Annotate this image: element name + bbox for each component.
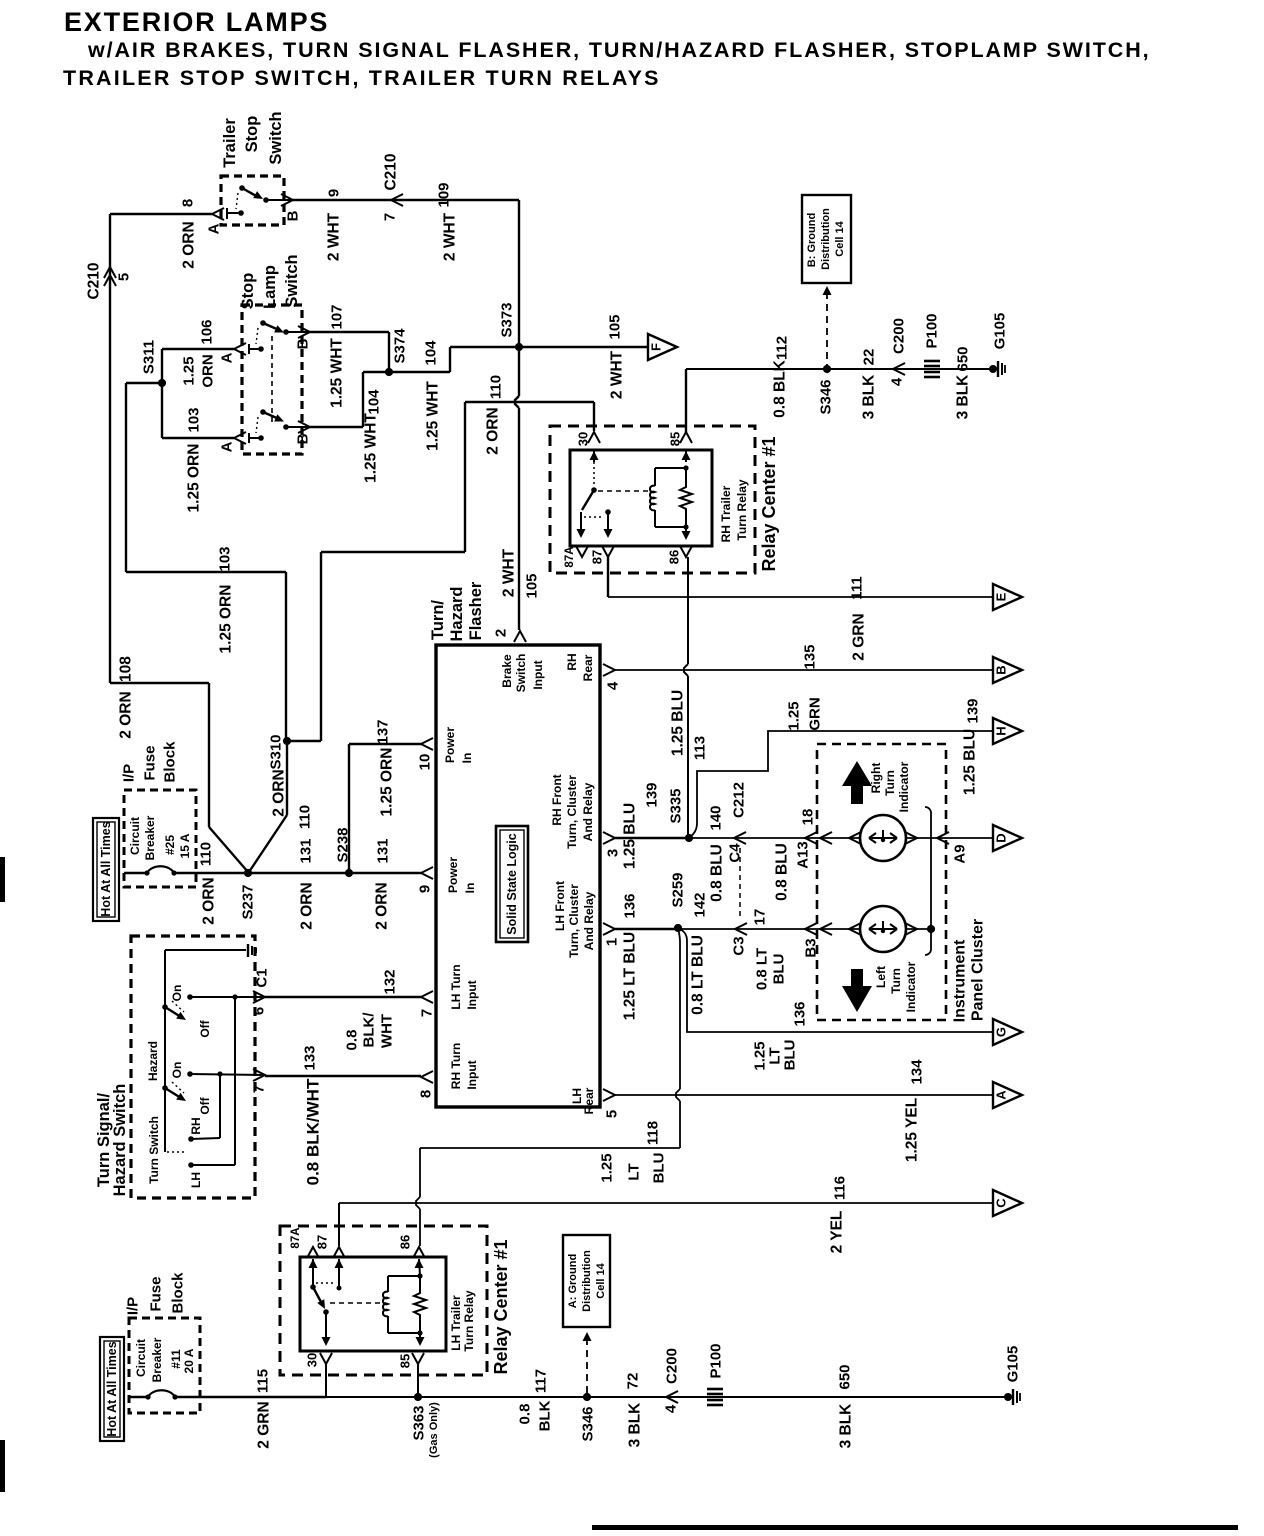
wire: S311 to stop lamp switch pin A bottom — [161, 383, 163, 438]
svg-text:111: 111 — [849, 576, 866, 599]
svg-text:TRAILER STOP SWITCH, TRAILER T: TRAILER STOP SWITCH, TRAILER TURN RELAYS — [63, 66, 661, 90]
svg-text:72: 72 — [625, 1373, 642, 1390]
dashed ground reference A — [586, 1338, 588, 1393]
svg-text:A13: A13 — [795, 841, 812, 869]
svg-text:RH: RH — [189, 1117, 203, 1134]
svg-text:LH Trailer: LH Trailer — [449, 1295, 463, 1351]
svg-text:107: 107 — [329, 304, 346, 329]
svg-text:139: 139 — [965, 698, 982, 723]
switch internal ground — [165, 949, 246, 951]
svg-text:RH Turn: RH Turn — [449, 1043, 463, 1089]
flasher pin 5 — [603, 1089, 615, 1101]
svg-text:2 ORN: 2 ORN — [299, 882, 316, 929]
svg-text:S374: S374 — [392, 328, 409, 364]
svg-text:B3: B3 — [803, 938, 820, 957]
svg-text:RH: RH — [565, 653, 579, 670]
svg-text:(Gas Only): (Gas Only) — [428, 1402, 440, 1458]
wire: breaker to relay 30 2 GRN 115 — [175, 1396, 326, 1398]
wire: S238 to flasher pin 9 2 ORN 131 — [349, 872, 421, 874]
svg-text:Hot At All Times: Hot At All Times — [105, 1341, 119, 1436]
svg-text:RH Front: RH Front — [550, 774, 564, 825]
splice S259 — [674, 924, 682, 932]
svg-text:A: A — [994, 1090, 1009, 1100]
svg-text:103: 103 — [186, 407, 203, 432]
svg-text:118: 118 — [645, 1121, 662, 1145]
flasher pin 4 — [603, 664, 615, 676]
svg-text:2 YEL: 2 YEL — [829, 1211, 846, 1254]
hot at all times box upper — [93, 818, 119, 921]
svg-text:650: 650 — [955, 346, 972, 371]
svg-text:LH: LH — [189, 1172, 203, 1188]
svg-text:15 A: 15 A — [178, 833, 192, 858]
svg-text:Breaker: Breaker — [150, 1337, 164, 1382]
svg-text:0.8 LT: 0.8 LT — [754, 948, 771, 990]
svg-text:Hazard: Hazard — [448, 586, 466, 641]
svg-text:4: 4 — [605, 681, 622, 690]
svg-text:1.25: 1.25 — [599, 1153, 616, 1182]
svg-text:Circuit: Circuit — [128, 817, 142, 855]
splice S311 — [158, 379, 166, 387]
svg-text:Turn: Turn — [889, 968, 903, 994]
flasher pin 7 — [421, 991, 433, 1003]
svg-text:8: 8 — [180, 199, 197, 207]
svg-text:Turn: Turn — [883, 770, 897, 796]
svg-text:5: 5 — [116, 273, 133, 281]
svg-text:I/P: I/P — [121, 764, 138, 782]
connector G — [993, 1019, 1022, 1045]
stop lamp switch blade pole — [260, 320, 266, 326]
svg-text:B: B — [994, 665, 1009, 674]
relay LH resistor — [414, 1276, 426, 1333]
hot at all times box lower — [100, 1337, 124, 1441]
wire: left vertical 2 ORN 108 drop — [109, 214, 111, 683]
svg-text:Input: Input — [465, 980, 479, 1009]
svg-text:136: 136 — [622, 893, 639, 918]
wire: 0.8 BLK/WHT 132 to flasher pin 7 — [265, 996, 421, 998]
ground G105 lower — [1004, 1393, 1012, 1401]
svg-text:1.25 BLU: 1.25 BLU — [670, 690, 687, 756]
RH trailer turn relay box — [550, 426, 755, 573]
svg-text:Rear: Rear — [581, 654, 595, 681]
bottom border line — [592, 1525, 1238, 1530]
svg-text:20 A: 20 A — [182, 1348, 196, 1373]
svg-text:Rear: Rear — [582, 1087, 596, 1114]
svg-text:1.25 ORN: 1.25 ORN — [218, 585, 235, 654]
svg-text:Trailer: Trailer — [221, 118, 239, 168]
connector A — [993, 1082, 1022, 1108]
wire: flasher pin 5 to connector A 1.25 YEL 134 — [615, 1094, 993, 1096]
wire: relay 86 down to S335 1.25 BLU 113 — [687, 557, 689, 664]
svg-text:2 ORN: 2 ORN — [374, 882, 391, 929]
stop lamp switch pin B pole — [286, 426, 310, 428]
LH trailer turn relay box — [280, 1226, 487, 1375]
svg-text:106: 106 — [199, 319, 216, 344]
svg-text:Relay Center #1: Relay Center #1 — [759, 436, 779, 571]
relay LH pin 85 — [412, 1353, 424, 1364]
switch pin 7 C1 — [253, 1069, 265, 1081]
svg-text:S310: S310 — [268, 734, 285, 769]
svg-text:S237: S237 — [240, 884, 257, 919]
splice S346 lower — [583, 1393, 591, 1401]
svg-text:650: 650 — [837, 1364, 854, 1389]
svg-text:1.25 BLU: 1.25 BLU — [962, 729, 979, 795]
svg-text:8: 8 — [418, 1090, 435, 1098]
svg-text:116: 116 — [832, 1176, 849, 1200]
svg-text:#25: #25 — [163, 835, 177, 855]
connector C200 cavity 4 lower — [666, 1391, 678, 1403]
svg-text:C212: C212 — [731, 782, 748, 818]
relay RH pin 86 — [680, 546, 692, 557]
svg-text:117: 117 — [533, 1369, 550, 1393]
switch vertical to RH contact — [219, 1074, 221, 1138]
svg-text:18: 18 — [800, 809, 817, 826]
svg-text:B: B — [285, 210, 302, 221]
svg-text:Turn/: Turn/ — [429, 600, 447, 640]
svg-text:2 WHT: 2 WHT — [501, 548, 518, 597]
page edge marks — [0, 857, 5, 902]
svg-text:131: 131 — [298, 838, 315, 863]
trailer stop switch pin A — [212, 208, 224, 220]
turn signal hazard switch box — [131, 936, 255, 1198]
splice S373 — [515, 343, 523, 351]
svg-text:Lamp: Lamp — [261, 265, 279, 309]
svg-text:0.8 BLK/WHT: 0.8 BLK/WHT — [304, 1078, 323, 1185]
svg-text:133: 133 — [302, 1045, 319, 1070]
stop lamp switch pin A pole — [234, 343, 246, 355]
svg-text:108: 108 — [118, 656, 135, 682]
svg-text:1.25 YEL: 1.25 YEL — [904, 1098, 921, 1162]
splice S363 — [414, 1393, 422, 1401]
switch common feed line — [164, 950, 166, 1152]
svg-text:P100: P100 — [924, 313, 941, 348]
relay LH pin 86 — [413, 1247, 425, 1258]
svg-text:C210: C210 — [383, 153, 400, 190]
cluster pin chevron RH row — [820, 832, 832, 844]
svg-text:2 ORN: 2 ORN — [118, 691, 135, 738]
svg-text:G: G — [994, 1027, 1009, 1037]
wire: 2 ORN 108 lower run — [110, 682, 209, 684]
svg-text:6: 6 — [251, 1007, 268, 1015]
wire: S346 to G105 3 BLK 22 650 — [827, 368, 990, 370]
svg-text:2 ORN: 2 ORN — [271, 769, 288, 816]
svg-text:3 BLK: 3 BLK — [955, 374, 972, 420]
svg-text:Breaker: Breaker — [143, 815, 157, 860]
ground G105 upper — [989, 365, 997, 373]
switch vertical to LH contact — [234, 997, 236, 1165]
svg-text:1.25 WHT: 1.25 WHT — [363, 413, 380, 483]
svg-text:1.25 BLU: 1.25 BLU — [622, 803, 639, 869]
connector C212 cavity C4 — [734, 832, 746, 844]
svg-text:0.8 BLU: 0.8 BLU — [774, 843, 791, 901]
svg-text:142: 142 — [692, 892, 709, 917]
svg-text:2 GRN: 2 GRN — [851, 613, 868, 660]
relay RH pin 87A — [576, 546, 588, 557]
left turn indicator bulb — [849, 923, 861, 935]
svg-text:BLU: BLU — [651, 1153, 668, 1184]
relay LH switch — [309, 1259, 318, 1268]
turn switch pole — [162, 1085, 168, 1091]
svg-text:Distribution: Distribution — [581, 1250, 593, 1312]
wire: relay 85 to S363 — [417, 1364, 419, 1397]
connector A13 — [805, 832, 817, 844]
svg-text:A: A — [206, 223, 223, 234]
connector E — [993, 584, 1022, 610]
connector B3 — [805, 923, 817, 935]
svg-text:Brake: Brake — [500, 654, 514, 688]
svg-text:0.8 LT BLU: 0.8 LT BLU — [690, 935, 707, 1015]
svg-text:1: 1 — [604, 938, 621, 946]
svg-text:0.8: 0.8 — [517, 1404, 534, 1425]
svg-text:E: E — [994, 592, 1009, 601]
svg-text:1.25: 1.25 — [786, 701, 803, 730]
wire: relay 85 to S346 0.8 BLK 112 — [685, 369, 687, 432]
svg-text:Cell 14: Cell 14 — [834, 220, 846, 256]
RH contact — [188, 1136, 194, 1142]
flasher pin 9 — [421, 867, 433, 879]
svg-text:135: 135 — [802, 644, 819, 669]
svg-text:85: 85 — [398, 1354, 413, 1368]
svg-text:On: On — [170, 985, 184, 1002]
wire: S335 to cluster A13 0.8 BLU 140/18 — [689, 837, 860, 839]
grommet P100 lower — [707, 1388, 723, 1391]
svg-text:Block: Block — [170, 1272, 187, 1314]
svg-text:7: 7 — [382, 213, 399, 221]
svg-text:BLK/: BLK/ — [361, 1012, 378, 1048]
svg-text:Relay Center #1: Relay Center #1 — [491, 1239, 511, 1374]
stop lamp switch blade pole — [260, 409, 266, 415]
svg-text:2 GRN: 2 GRN — [256, 1401, 273, 1448]
right turn indicator arrow — [842, 761, 872, 786]
svg-text:And Relay: And Relay — [581, 782, 595, 841]
svg-text:G105: G105 — [1005, 1346, 1022, 1383]
stop lamp switch mechanical link — [271, 336, 273, 424]
svg-text:S373: S373 — [499, 302, 516, 337]
splice S310 — [283, 737, 291, 745]
svg-text:Right: Right — [869, 763, 883, 794]
svg-text:131: 131 — [375, 838, 392, 863]
svg-text:S259: S259 — [670, 872, 687, 907]
svg-text:Fuse: Fuse — [142, 745, 159, 780]
wire: 2 WHT 9 / 109 to S373 drop — [293, 199, 519, 201]
svg-text:86: 86 — [398, 1235, 413, 1249]
svg-text:3 BLK: 3 BLK — [627, 1402, 644, 1448]
svg-text:BLU: BLU — [771, 954, 788, 985]
svg-text:9: 9 — [417, 885, 434, 893]
svg-text:112: 112 — [774, 336, 791, 360]
svg-text:17: 17 — [752, 909, 769, 926]
svg-text:113: 113 — [692, 736, 709, 760]
relay LH pin 87 — [333, 1247, 345, 1258]
svg-text:w/AIR BRAKES, TURN SIGNAL FLAS: w/AIR BRAKES, TURN SIGNAL FLASHER, TURN/… — [87, 38, 1151, 62]
ground distribution cell 14 B box — [802, 195, 851, 283]
left turn indicator arrow — [842, 986, 872, 1012]
connector C210 cavity 7 — [391, 194, 403, 206]
svg-text:Flasher: Flasher — [467, 581, 485, 640]
cluster common line — [925, 807, 931, 812]
svg-text:0.8 BLK: 0.8 BLK — [772, 359, 789, 418]
wire: S335 to connector H 1.25 BLU 139 — [689, 731, 993, 838]
right turn indicator bulb — [849, 832, 861, 844]
wire: 1.25 WHT 107 top pole output — [310, 331, 389, 333]
svg-text:Indicator: Indicator — [904, 961, 918, 1012]
svg-text:A: A — [219, 352, 236, 363]
wire: S259 branch to connector G 1.25 LT BLU 136 — [678, 928, 993, 1032]
instrument panel cluster box — [817, 744, 946, 1020]
connector C210 cavity 5 chevrons — [104, 267, 116, 278]
svg-text:1.25: 1.25 — [181, 356, 198, 385]
trailer stop switch box — [221, 176, 284, 225]
wire: bulb to cluster common — [906, 837, 993, 839]
svg-text:LH Turn: LH Turn — [449, 964, 463, 1009]
svg-text:C3: C3 — [731, 936, 748, 955]
wire: ground run to G105 — [326, 1396, 1005, 1398]
svg-text:134: 134 — [909, 1059, 926, 1085]
trailer stop switch blade — [239, 185, 245, 191]
svg-text:87: 87 — [315, 1235, 330, 1249]
svg-text:Block: Block — [162, 741, 179, 783]
svg-text:S346: S346 — [580, 1406, 597, 1441]
svg-text:105: 105 — [524, 573, 541, 598]
svg-text:G105: G105 — [992, 313, 1009, 350]
svg-text:C200: C200 — [891, 318, 908, 354]
svg-text:F: F — [649, 343, 664, 351]
relay RH resistor — [680, 468, 692, 527]
svg-text:103: 103 — [217, 546, 234, 571]
svg-text:104: 104 — [366, 389, 383, 415]
relay LH coil — [387, 1276, 389, 1292]
svg-text:5: 5 — [604, 1110, 621, 1118]
svg-text:10: 10 — [417, 754, 434, 771]
connector C212 cavity C3 — [735, 923, 747, 935]
svg-text:109: 109 — [436, 182, 453, 207]
svg-text:B: B — [295, 338, 312, 349]
splice S335 — [685, 834, 693, 842]
svg-text:105: 105 — [607, 314, 624, 339]
connector C — [993, 1190, 1022, 1216]
flasher pin 8 — [421, 1071, 433, 1083]
svg-text:140: 140 — [708, 805, 725, 830]
wire: trailer stop switch feed 2 ORN 8 — [110, 213, 212, 215]
svg-text:1.25 WHT: 1.25 WHT — [329, 338, 346, 408]
stop lamp switch box — [242, 305, 302, 454]
svg-text:Instrument: Instrument — [952, 939, 969, 1022]
svg-text:110: 110 — [198, 842, 215, 866]
svg-text:0.8: 0.8 — [344, 1030, 361, 1051]
svg-text:4: 4 — [889, 377, 906, 386]
wire: S311 to stop lamp switch pin A top — [161, 349, 163, 383]
svg-text:7: 7 — [251, 1085, 268, 1093]
splice S346 upper — [823, 365, 831, 373]
svg-text:Stop: Stop — [243, 116, 261, 153]
svg-text:0.8 BLU: 0.8 BLU — [709, 844, 726, 902]
svg-text:Switch: Switch — [514, 654, 528, 693]
svg-text:A: Ground: A: Ground — [567, 1254, 579, 1308]
svg-text:139: 139 — [644, 782, 661, 807]
svg-text:Turn Relay: Turn Relay — [462, 1290, 476, 1351]
svg-text:2 ORN: 2 ORN — [181, 221, 198, 268]
svg-text:115: 115 — [255, 1369, 272, 1393]
flasher pin 10 — [421, 738, 433, 750]
wire: S238 to flasher pin 10 1.25 ORN 137 — [348, 744, 350, 873]
hazard switch pole — [162, 1004, 168, 1010]
svg-text:Panel Cluster: Panel Cluster — [970, 919, 987, 1021]
wire: turn On contact — [190, 1074, 265, 1075]
svg-text:110: 110 — [488, 375, 505, 399]
wire: S310 diagonal to S237 2 ORN 110 — [286, 741, 288, 815]
dashed ground reference B — [826, 292, 828, 365]
svg-text:Indicator: Indicator — [897, 761, 911, 812]
svg-text:Off: Off — [198, 1019, 212, 1037]
svg-text:C210: C210 — [86, 262, 103, 299]
svg-text:A9: A9 — [952, 844, 969, 863]
svg-text:S363: S363 — [411, 1405, 428, 1440]
turn hazard flasher box — [436, 645, 600, 1107]
svg-text:2 WHT: 2 WHT — [442, 212, 459, 261]
svg-text:137: 137 — [375, 719, 392, 744]
svg-text:86: 86 — [667, 550, 682, 564]
svg-text:S311: S311 — [141, 340, 158, 374]
relay RH pin 87 — [602, 546, 614, 557]
svg-text:1.25 ORN: 1.25 ORN — [379, 748, 396, 817]
splice S238 — [345, 869, 353, 877]
svg-text:Fuse: Fuse — [148, 1276, 165, 1311]
wire: breaker to S237 2 ORN 110 — [174, 872, 248, 874]
svg-text:LH Front: LH Front — [553, 881, 567, 931]
svg-text:2 WHT: 2 WHT — [609, 350, 626, 399]
svg-text:S346: S346 — [818, 379, 835, 414]
svg-text:Hot At All Times: Hot At All Times — [99, 821, 113, 916]
svg-text:Power: Power — [443, 727, 457, 763]
svg-text:And Relay: And Relay — [582, 891, 596, 950]
svg-text:C: C — [994, 1198, 1009, 1208]
svg-text:Distribution: Distribution — [820, 208, 832, 270]
svg-text:Circuit: Circuit — [134, 1339, 148, 1377]
svg-text:132: 132 — [382, 969, 399, 994]
svg-text:Hazard Switch: Hazard Switch — [111, 1084, 129, 1197]
svg-text:S335: S335 — [668, 788, 685, 823]
svg-text:85: 85 — [668, 432, 683, 446]
svg-text:Solid State Logic: Solid State Logic — [505, 833, 519, 934]
svg-text:104: 104 — [423, 340, 440, 366]
wire: relay 30 riser — [325, 1364, 327, 1397]
svg-text:Hazard: Hazard — [146, 1041, 160, 1081]
svg-text:A: A — [219, 441, 236, 452]
svg-text:4: 4 — [663, 1404, 680, 1413]
svg-text:22: 22 — [861, 349, 878, 366]
svg-text:ORN: ORN — [200, 354, 217, 387]
wire: 0.8 BLK/WHT 133 to flasher pin 8 — [265, 1075, 421, 1077]
svg-text:C200: C200 — [664, 1348, 681, 1384]
svg-text:Turn, Cluster: Turn, Cluster — [565, 775, 579, 849]
svg-text:30: 30 — [305, 1353, 320, 1367]
svg-text:B: B — [295, 433, 312, 444]
svg-text:1.25 LT BLU: 1.25 LT BLU — [622, 932, 639, 1020]
svg-text:2 ORN: 2 ORN — [201, 877, 218, 924]
relay LH pin 87A — [307, 1247, 319, 1258]
svg-text:2: 2 — [493, 629, 510, 637]
svg-text:#11: #11 — [169, 1349, 183, 1369]
svg-text:87A: 87A — [564, 546, 576, 567]
stop lamp switch pin A pole — [234, 432, 246, 444]
wire: S311 branch to S310 — [126, 382, 162, 384]
connector H — [993, 718, 1022, 744]
wire: S373 down to flasher pin 2 2 WHT 105 — [518, 347, 520, 396]
connector F — [648, 334, 677, 360]
relay RH switch — [590, 451, 599, 460]
wire: S259 to cluster B3 0.8 LT BLU 142/17 — [678, 928, 860, 930]
svg-text:3 BLK: 3 BLK — [861, 374, 878, 420]
svg-text:RH Trailer: RH Trailer — [719, 485, 733, 542]
